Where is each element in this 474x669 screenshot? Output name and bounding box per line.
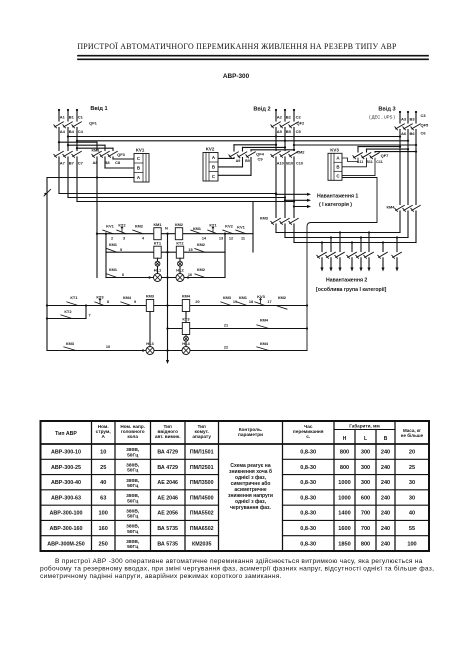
svg-text:380В,: 380В, — [126, 524, 140, 530]
svg-text:A6: A6 — [401, 131, 407, 136]
svg-text:25: 25 — [409, 465, 415, 471]
wire: QF3 outputs to relay KV1 — [105, 157, 134, 168]
svg-text:7: 7 — [88, 314, 90, 318]
svg-text:АВР-300-40: АВР-300-40 — [51, 480, 81, 486]
contact KT1 timed (rung1) — [208, 222, 223, 240]
contact KM2 aux (rung1) — [133, 223, 145, 240]
pin labels A11 B11 C11 — [357, 160, 383, 164]
pin labels A7 B7 C7 — [60, 161, 84, 166]
svg-text:800: 800 — [361, 541, 370, 547]
load 2 switched drops group 2 — [347, 231, 374, 271]
svg-text:A3: A3 — [401, 117, 407, 122]
svg-text:10: 10 — [100, 450, 106, 456]
svg-text:300: 300 — [361, 480, 370, 486]
contact KT2 timed (rung1) — [117, 222, 127, 240]
svg-text:B7: B7 — [69, 161, 75, 166]
svg-text:АВР-300-100: АВР-300-100 — [50, 511, 83, 517]
svg-text:( ДЕС , UPS ): ( ДЕС , UPS ) — [369, 115, 395, 120]
svg-text:240: 240 — [381, 526, 390, 532]
svg-text:63: 63 — [100, 495, 106, 501]
contact KV1b (rung1) — [236, 224, 246, 240]
svg-text:В пристрої АВР -300 оперативне: В пристрої АВР -300 оперативне автоматич… — [55, 557, 423, 565]
svg-text:КТ3: КТ3 — [182, 317, 190, 322]
svg-text:50Гц: 50Гц — [127, 452, 138, 458]
table data rows — [47, 447, 416, 550]
svg-text:C6: C6 — [421, 131, 427, 136]
wire: input1 phases down to KM1 — [59, 128, 77, 151]
svg-text:C11: C11 — [376, 160, 382, 164]
contact KM3 aux (rung4) — [195, 295, 237, 306]
svg-text:B1: B1 — [69, 115, 75, 120]
svg-text:АВР-300-160: АВР-300-160 — [50, 526, 83, 532]
wire: KM3 outputs to load2 bus — [276, 224, 294, 243]
svg-text:авт. вимик.: авт. вимик. — [155, 434, 181, 439]
svg-text:C10: C10 — [296, 162, 303, 166]
svg-text:3: 3 — [123, 237, 125, 241]
rung 3 wire — [106, 252, 225, 277]
wire: taps to QF3 — [58, 141, 113, 150]
wire: load2 bus phase C — [294, 242, 416, 244]
lamp HL1 — [148, 268, 162, 282]
svg-text:1600: 1600 — [338, 526, 350, 532]
svg-text:КМ2: КМ2 — [135, 223, 144, 228]
rung 1 wire — [96, 233, 253, 235]
svg-text:11: 11 — [241, 237, 245, 241]
svg-text:17: 17 — [267, 300, 271, 304]
svg-text:9: 9 — [134, 300, 136, 304]
svg-text:50Гц: 50Гц — [127, 529, 138, 535]
svg-text:ВА 4729: ВА 4729 — [157, 465, 178, 471]
svg-text:КМ4: КМ4 — [123, 295, 132, 300]
wire: output bus phase C — [77, 200, 295, 202]
load 2 switched drops group 1 — [317, 231, 345, 271]
svg-text:QF3: QF3 — [117, 152, 126, 157]
wire: QF4 outputs to relay KV2 — [218, 158, 251, 176]
rung 6 wire — [47, 350, 307, 352]
svg-text:QF1: QF1 — [89, 121, 98, 126]
svg-text:КМ3: КМ3 — [66, 341, 75, 346]
svg-text:B11: B11 — [366, 160, 372, 164]
coil KM3 — [146, 294, 155, 312]
wire: rung1-rung2 left drop — [105, 233, 107, 253]
pin labels A9 B9 — [236, 159, 250, 163]
node: KT1/KT2 junction — [85, 304, 87, 306]
wire: taps to QF4 — [234, 144, 295, 151]
svg-text:0,8-30: 0,8-30 — [300, 511, 316, 517]
pin labels A8 B8 C8 — [92, 160, 120, 165]
svg-text:A1: A1 — [60, 115, 66, 120]
svg-text:380В,: 380В, — [126, 463, 140, 469]
svg-text:800: 800 — [340, 450, 349, 456]
svg-text:КМ1: КМ1 — [109, 267, 118, 272]
table headers — [55, 423, 424, 443]
contact KV2 (rung1) — [223, 223, 234, 240]
contact KT1 (rung4) — [67, 295, 79, 306]
wire: KM1 outputs down — [59, 157, 77, 202]
svg-text:чергування фаз.: чергування фаз. — [230, 504, 271, 511]
svg-text:КМ2035: КМ2035 — [192, 541, 211, 547]
svg-text:ПМЛ4500: ПМЛ4500 — [190, 495, 214, 501]
circuit breaker QF2 — [271, 121, 305, 128]
svg-text:ПМЛ2501: ПМЛ2501 — [190, 465, 214, 471]
svg-text:6: 6 — [122, 273, 124, 277]
coil KM1 — [154, 222, 163, 240]
contact KT2 parallel branch — [46, 306, 91, 320]
svg-text:240: 240 — [381, 465, 390, 471]
svg-text:0,8-30: 0,8-30 — [300, 480, 316, 486]
svg-text:Ввід 2: Ввід 2 — [253, 107, 270, 113]
contact KM2 aux (rung4) — [276, 295, 287, 309]
svg-text:HL2: HL2 — [176, 268, 184, 273]
wire: left control rail — [46, 178, 48, 350]
svg-text:L: L — [364, 436, 367, 442]
contact KM1 aux (rung2) — [107, 242, 122, 252]
svg-text:КМ2: КМ2 — [197, 242, 206, 247]
wire: KV3 output routed around load1 label — [307, 178, 377, 351]
svg-text:240: 240 — [381, 541, 390, 547]
svg-text:C4: C4 — [78, 129, 84, 134]
svg-text:ПМЛ1501: ПМЛ1501 — [190, 450, 214, 456]
svg-text:B4: B4 — [69, 129, 75, 134]
svg-text:KV1: KV1 — [237, 224, 246, 229]
svg-text:25: 25 — [100, 465, 106, 471]
contact KM2 aux (rung2) — [188, 242, 205, 252]
svg-text:QF5: QF5 — [421, 123, 430, 128]
svg-text:380В,: 380В, — [126, 539, 140, 545]
svg-text:B9: B9 — [245, 159, 250, 163]
lamp HL4 — [182, 341, 191, 355]
specification table grid — [41, 421, 430, 551]
load 1 feeder arrows — [275, 193, 311, 208]
wire: ladder left rail — [96, 157, 98, 278]
svg-text:2: 2 — [111, 237, 113, 241]
svg-text:АЕ 2046: АЕ 2046 — [157, 495, 178, 501]
svg-text:B5: B5 — [286, 129, 292, 134]
svg-text:КМ1: КМ1 — [92, 148, 101, 153]
node: input 1 terminals — [58, 109, 78, 111]
svg-text:АВР-300-63: АВР-300-63 — [51, 495, 81, 501]
svg-text:1000: 1000 — [338, 495, 350, 501]
circuit breaker QF4 — [229, 152, 265, 162]
pin labels A1 B1 C1 — [60, 115, 84, 120]
svg-text:A7: A7 — [60, 161, 66, 166]
footnote paragraph — [40, 557, 434, 580]
svg-text:1000: 1000 — [338, 480, 350, 486]
svg-text:40: 40 — [409, 511, 415, 517]
label Навантаження 1 — [317, 193, 358, 208]
double rule under title — [78, 55, 428, 57]
break mark on left rail — [44, 190, 51, 197]
svg-text:QF2: QF2 — [297, 121, 306, 126]
wire: input3 phase stubs — [400, 112, 416, 123]
svg-text:QF7: QF7 — [381, 153, 390, 158]
svg-text:АВР-300-10: АВР-300-10 — [51, 450, 81, 456]
svg-text:B2: B2 — [286, 115, 292, 120]
contact KT3 timed (rung4) — [95, 294, 109, 305]
svg-text:КМ1: КМ1 — [154, 222, 163, 227]
pin labels A2 B2 C2 — [277, 115, 302, 120]
svg-text:B: B — [212, 164, 215, 169]
svg-text:КМ3: КМ3 — [223, 295, 232, 300]
wire: load2 bus phase B — [285, 237, 408, 239]
svg-text:700: 700 — [361, 511, 370, 517]
svg-text:АВР-300М-250: АВР-300М-250 — [47, 541, 84, 547]
svg-text:C9: C9 — [257, 157, 263, 162]
wire: input3 phases down to KM4 — [400, 130, 416, 205]
svg-text:зникнення хоча б: зникнення хоча б — [229, 468, 272, 475]
svg-text:240: 240 — [381, 480, 390, 486]
svg-text:кола: кола — [127, 434, 138, 439]
voltage relay KV2 — [203, 147, 218, 182]
indicator under KT3 coil — [184, 335, 189, 347]
svg-text:A5: A5 — [277, 129, 283, 134]
svg-text:40: 40 — [100, 480, 106, 486]
coil KT2 — [176, 241, 184, 259]
svg-text:КМ1: КМ1 — [109, 242, 118, 247]
svg-text:KV2: KV2 — [225, 223, 234, 228]
svg-text:50Гц: 50Гц — [127, 498, 138, 504]
rung 2 wire — [106, 251, 225, 253]
wire: rung1-rung2 right drop — [224, 233, 226, 253]
svg-text:робочому та резервному вводах,: робочому та резервному вводах, при зміні… — [40, 565, 434, 573]
svg-text:с.: с. — [306, 434, 310, 439]
svg-text:C2: C2 — [296, 115, 302, 120]
wire: input2 phases down to KM2 — [276, 128, 294, 151]
svg-text:КТ2: КТ2 — [176, 241, 184, 246]
svg-text:HL1: HL1 — [154, 268, 162, 273]
load 2 switched drop 8 — [392, 236, 402, 271]
svg-text:0,8-30: 0,8-30 — [300, 541, 316, 547]
lamp HL2 — [176, 268, 189, 282]
svg-text:A9: A9 — [236, 159, 241, 163]
contact KM4 aux (rung5) — [257, 318, 269, 329]
svg-text:Навантаження 1: Навантаження 1 — [317, 193, 358, 199]
svg-text:[особлива група І категорії]: [особлива група І категорії] — [316, 286, 387, 293]
node: input 3 terminals — [399, 111, 417, 113]
wire: load2 bus phase A — [276, 232, 400, 234]
rung 4 wire — [46, 304, 308, 306]
svg-text:КТ2: КТ2 — [64, 309, 72, 314]
svg-text:0,8-30: 0,8-30 — [300, 465, 316, 471]
svg-text:700: 700 — [361, 526, 370, 532]
node: input 2 terminals — [275, 109, 295, 111]
svg-text:КМ2: КМ2 — [197, 267, 206, 272]
svg-text:КМ1: КМ1 — [193, 226, 202, 231]
svg-text:0,8-30: 0,8-30 — [300, 450, 316, 456]
wire: output bus phase B — [68, 196, 286, 198]
svg-text:15: 15 — [188, 248, 192, 252]
svg-text:КТ1: КТ1 — [154, 241, 162, 246]
contact KM3 aux (rung6) — [64, 341, 110, 351]
svg-text:Тип АВР: Тип АВР — [55, 431, 77, 437]
wire: ladder right rail — [252, 202, 254, 253]
wire: tie line phase A (y136.5) — [67, 135, 401, 137]
contact KM1 aux (rung1 right) — [191, 226, 207, 241]
svg-text:HL4: HL4 — [182, 341, 190, 346]
svg-text:A2: A2 — [277, 115, 283, 120]
wire: tie line phase C (y145) — [293, 144, 417, 146]
svg-text:50Гц: 50Гц — [127, 468, 138, 474]
svg-text:B3: B3 — [410, 117, 416, 122]
coil KT1 — [154, 241, 162, 259]
svg-text:A4: A4 — [60, 129, 66, 134]
circuit breaker QF1 — [54, 121, 98, 128]
contact KV3 (rung4) — [255, 294, 272, 306]
contact KM4 aux (rung4) — [121, 295, 136, 306]
svg-text:C1: C1 — [78, 115, 84, 120]
svg-text:N: N — [165, 226, 168, 231]
node N — [165, 226, 169, 235]
svg-text:В: В — [384, 436, 388, 442]
svg-text:100: 100 — [99, 511, 108, 517]
svg-text:100: 100 — [407, 541, 416, 547]
svg-text:КМ2: КМ2 — [278, 295, 287, 300]
svg-text:16: 16 — [188, 273, 192, 277]
svg-text:Навантаження 2: Навантаження 2 — [326, 278, 367, 284]
circuit breaker QF5 — [395, 123, 429, 130]
svg-text:380В,: 380В, — [126, 447, 140, 453]
svg-text:KV1: KV1 — [136, 148, 145, 153]
svg-text:АВР-300: АВР-300 — [223, 73, 250, 80]
svg-text:ВА 5735: ВА 5735 — [157, 526, 178, 532]
wire: KM4 coil to KT3 coil — [185, 312, 187, 323]
svg-text:ПМА6502: ПМА6502 — [190, 526, 214, 532]
svg-text:Н: Н — [343, 436, 347, 442]
wire: KM2 outputs down to KM3 — [276, 157, 294, 218]
svg-text:HL3: HL3 — [146, 341, 154, 346]
wire: QF7 outputs to relay KV3 — [342, 158, 358, 162]
svg-text:C7: C7 — [78, 161, 84, 166]
svg-text:Ввід 3: Ввід 3 — [378, 107, 395, 113]
svg-text:B10: B10 — [286, 162, 293, 166]
svg-text:АЕ 2046: АЕ 2046 — [157, 480, 178, 486]
svg-text:A10: A10 — [277, 162, 284, 166]
load 2 switched drop 7 — [378, 241, 388, 271]
wire: tie line phase B (y140.8) — [76, 140, 409, 142]
svg-text:КМ4: КМ4 — [260, 318, 269, 323]
svg-text:АВР-300-25: АВР-300-25 — [51, 465, 81, 471]
svg-text:однієї з фаз,: однієї з фаз, — [235, 498, 267, 505]
contact KM1 aux (rung3) — [107, 267, 124, 278]
svg-text:0,8-30: 0,8-30 — [300, 495, 316, 501]
voltage relay KV1 — [134, 148, 149, 183]
svg-text:4: 4 — [142, 237, 145, 241]
svg-text:АЕ 2056: АЕ 2056 — [157, 511, 178, 517]
svg-text:КМ4: КМ4 — [387, 205, 396, 210]
wire: input2 phase stubs — [276, 110, 294, 121]
svg-text:300: 300 — [361, 465, 370, 471]
wire: left feeder to KV1 cell A — [47, 176, 134, 178]
svg-text:Ввід 1: Ввід 1 — [90, 106, 107, 112]
svg-text:КМ4: КМ4 — [182, 294, 191, 299]
wire: input1 phase stubs — [59, 110, 77, 121]
svg-text:600: 600 — [361, 495, 370, 501]
svg-text:B6: B6 — [410, 131, 416, 136]
svg-text:KV3: KV3 — [330, 148, 339, 153]
svg-text:Габарити, мм: Габарити, мм — [349, 423, 380, 429]
svg-text:ПРИСТРОЇ АВТОМАТИЧНОГО ПЕРЕМ: ПРИСТРОЇ АВТОМАТИЧНОГО ПЕРЕМИКАННЯ ЖИВЛЕ… — [77, 42, 397, 51]
svg-text:не більше: не більше — [401, 432, 424, 438]
circuit breaker QF7 — [353, 153, 389, 159]
svg-text:12: 12 — [229, 237, 233, 241]
svg-text:( І категорія ): ( І категорія ) — [319, 202, 352, 208]
svg-text:однієї з фаз,: однієї з фаз, — [235, 474, 267, 481]
svg-text:1400: 1400 — [338, 511, 350, 517]
svg-text:160: 160 — [99, 526, 108, 532]
contactor KM3 (load2 poles) — [260, 216, 298, 225]
svg-text:ВА 4729: ВА 4729 — [157, 450, 178, 456]
wire: taps to QF7 — [358, 145, 417, 152]
svg-text:22: 22 — [224, 346, 228, 350]
svg-text:380В,: 380В, — [126, 493, 140, 499]
indicator under KT1 coil — [155, 258, 160, 273]
voltage relay KV3 — [328, 148, 342, 181]
wire: output bus phase A — [59, 192, 277, 194]
svg-text:0,8-30: 0,8-30 — [300, 526, 316, 532]
svg-text:параметри: параметри — [238, 432, 263, 437]
svg-text:КМ2: КМ2 — [297, 150, 306, 155]
contact KM2 aux (rung3) — [188, 267, 206, 278]
svg-text:380В,: 380В, — [126, 508, 140, 514]
circuit breaker QF3 — [92, 151, 126, 157]
svg-text:30: 30 — [409, 480, 415, 486]
svg-text:ПМА5502: ПМА5502 — [190, 511, 214, 517]
label Навантаження 2 — [316, 278, 387, 294]
table merged note cell — [228, 463, 273, 511]
svg-text:18: 18 — [249, 300, 253, 304]
svg-text:КТ1: КТ1 — [70, 295, 78, 300]
rung 5 wire — [166, 327, 308, 329]
svg-text:КМ4: КМ4 — [260, 341, 269, 346]
contactor KM1 (main poles) — [54, 148, 100, 158]
svg-text:C3: C3 — [421, 113, 427, 118]
svg-text:КМ3: КМ3 — [146, 294, 155, 299]
svg-text:240: 240 — [381, 450, 390, 456]
svg-text:240: 240 — [381, 511, 390, 517]
svg-text:ПМЛ3500: ПМЛ3500 — [190, 480, 214, 486]
lamp HL3 — [142, 341, 155, 355]
svg-text:1850: 1850 — [338, 541, 350, 547]
svg-text:50Гц: 50Гц — [127, 483, 138, 489]
svg-text:21: 21 — [224, 324, 228, 328]
svg-text:55: 55 — [409, 526, 415, 532]
svg-text:КМ3: КМ3 — [260, 216, 269, 221]
svg-text:380В,: 380В, — [126, 478, 140, 484]
svg-text:300: 300 — [361, 450, 370, 456]
coil KT3 — [182, 317, 190, 335]
svg-text:10: 10 — [106, 345, 110, 349]
svg-text:240: 240 — [381, 495, 390, 501]
svg-text:8: 8 — [107, 300, 109, 304]
pin labels A4 B4 C4 — [60, 129, 84, 134]
pin labels A10 B10 C10 — [277, 162, 303, 166]
svg-text:КМ1: КМ1 — [239, 295, 248, 300]
svg-text:апарату: апарату — [192, 434, 211, 439]
coil KM2 — [175, 222, 184, 240]
svg-text:5: 5 — [120, 248, 122, 252]
svg-text:50Гц: 50Гц — [127, 544, 138, 550]
contact KM1 aux (rung4) — [237, 295, 253, 306]
svg-text:А: А — [102, 434, 106, 439]
pin labels A6 B6 C6 — [401, 131, 426, 137]
svg-text:C8: C8 — [115, 160, 121, 165]
svg-text:30: 30 — [409, 495, 415, 501]
svg-text:50Гц: 50Гц — [127, 514, 138, 520]
svg-text:КМ2: КМ2 — [175, 222, 184, 227]
svg-text:KV1: KV1 — [106, 223, 115, 228]
svg-text:800: 800 — [340, 465, 349, 471]
contact KM4 aux (rung6) — [257, 341, 269, 351]
